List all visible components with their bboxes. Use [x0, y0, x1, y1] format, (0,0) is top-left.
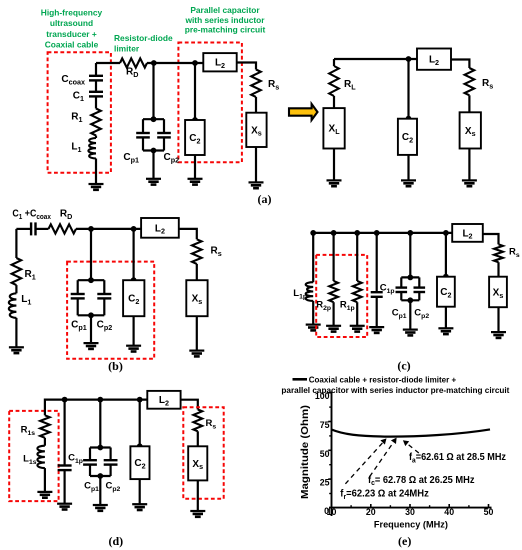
svg-text:100: 100 [315, 391, 330, 401]
wire R1-L1 (b) [15, 285, 17, 293]
inductor L2 box (b) [141, 218, 179, 238]
yellow arrow (a) [289, 104, 318, 120]
svg-text:Parallel capacitorwith series: Parallel capacitorwith series inductorpr… [184, 5, 265, 35]
junction R2p (c) [331, 230, 337, 236]
wire C2-ground (c) [445, 307, 447, 329]
ground Xs (b) [189, 351, 204, 357]
capacitor C1 (a) [89, 92, 103, 97]
inductor L2 box (a right) [417, 49, 451, 70]
legend line sample (e) [293, 378, 308, 381]
reactance Xs box (a) [246, 113, 266, 147]
ground Cp branch (a) [146, 179, 161, 185]
svg-text:(c): (c) [397, 359, 410, 373]
inductor L1s (d) [37, 446, 45, 468]
wire to Cp pair (d) [99, 400, 101, 448]
wire L2 to Rs (a right) [451, 60, 469, 69]
dashed arrow fc (e) [370, 440, 396, 477]
wire top left (a) [96, 62, 120, 64]
wire to Cp pair (b) [90, 229, 92, 280]
wire L1p-ground (c) [312, 301, 314, 325]
node top of C2 (a) [192, 117, 198, 123]
wire C1p-ground (d) [63, 470, 65, 504]
wire top (d) [45, 400, 147, 410]
wire C1p-ground (c) [376, 297, 378, 328]
wire C1-R1 (a) [95, 96, 97, 108]
svg-text:(a): (a) [258, 192, 272, 206]
red dashed box: pre-matching circuit (a) [178, 43, 242, 163]
wire Rs-Xs (a) [255, 97, 257, 113]
capacitor C1+Ccoax (b) [31, 222, 35, 235]
wire to C1p (c) [376, 233, 378, 292]
wire L2-Rs (b) [179, 229, 197, 239]
red dashed box Cp1 Cp2 C2 (b) [67, 262, 154, 359]
resistor R2p (c) [329, 281, 338, 302]
wire to R2p (c) [333, 233, 335, 281]
wire to C2 (c) [445, 233, 447, 277]
wire L2-Rs (d) [181, 400, 198, 410]
junction C1p (c) [374, 230, 380, 236]
ground Cp (d) [93, 505, 108, 511]
y axis (e) [331, 392, 333, 517]
svg-text:Magnitude (Ohm): Magnitude (Ohm) [300, 405, 311, 499]
arrowhead fr (e) [380, 438, 386, 444]
capacitor C2 box (c) [437, 277, 455, 307]
ground Xs (c) [491, 332, 506, 338]
wire L2 to Rs (a) [237, 63, 256, 70]
resistor R1s (d) [40, 415, 50, 438]
capacitor C2 box (a right) [398, 119, 417, 155]
svg-text:fr=62.23 Ω at 24MHz: fr=62.23 Ω at 24MHz [340, 489, 429, 501]
wire Cp-ground (b) [90, 315, 92, 343]
resistor RL (a right) [329, 66, 339, 96]
junction C2 (c) [443, 230, 449, 236]
wire Cp-ground (a) [152, 151, 154, 179]
wire RL-XL (a right) [333, 96, 335, 108]
junction node C2 (a right) [406, 56, 412, 62]
wire to C2 (b) [133, 229, 135, 280]
impedance magnitude curve (e) [332, 429, 491, 436]
junction left end (c) [310, 230, 316, 236]
x axis tick labels (e) [327, 507, 494, 517]
arrowhead fc (e) [391, 438, 397, 444]
y axis tick labels (e) [315, 391, 330, 516]
wire R2p-ground (c) [333, 302, 335, 326]
resistor R1 (b) [12, 258, 22, 285]
resistor Rs (a right) [465, 68, 475, 95]
junction Cp (b) [88, 226, 94, 232]
wire L1-ground (b) [15, 318, 17, 347]
svg-text:(e): (e) [398, 534, 411, 548]
svg-text:fc= 62.78 Ω at 26.25 MHz: fc= 62.78 Ω at 26.25 MHz [368, 475, 475, 487]
wire Rs-Xs (a right) [468, 95, 470, 112]
wire Xs-ground (b) [196, 316, 198, 350]
svg-text:(d): (d) [108, 534, 123, 548]
junction C1p (d) [62, 397, 68, 403]
reactance XL box (a right) [323, 108, 344, 148]
capacitors Cp1 Cp2 parallel pair (a) [136, 116, 171, 153]
red dashed box Rs Xs (d) [183, 407, 223, 498]
node top C2 (b) [131, 277, 137, 283]
capacitors Cp1 Cp2 parallel pair (d) [83, 445, 117, 479]
capacitors Cp1 Cp2 parallel pair (b) [71, 277, 112, 318]
ground Xs branch (a) [249, 182, 264, 188]
wire Ccoax-C1 (a) [95, 80, 97, 91]
inductor L2 box (d) [147, 391, 180, 409]
wire Xs-ground (a right) [468, 149, 470, 181]
red dashed box R1s L1s (d) [9, 411, 58, 501]
wire C2-ground (b) [133, 316, 135, 346]
wire Cp-ground (c) [409, 300, 411, 329]
wire top (a right) [334, 58, 417, 60]
ground Xs (d) [190, 511, 205, 517]
wire to Ccoax (a) [95, 63, 97, 76]
red dashed box: transducer + coaxial cable (a) [48, 52, 111, 172]
wire R1p-ground (c) [356, 302, 358, 326]
wire to R1 (b) [15, 229, 17, 258]
ground Cp (b) [84, 343, 99, 349]
junction C2 (b) [131, 226, 137, 232]
wire Xs-ground (c) [497, 307, 499, 332]
node top of C2 (a right) [406, 116, 412, 122]
capacitor C1p (c) [371, 292, 383, 297]
capacitor Ccoax (a) [89, 76, 103, 81]
inductor L2 box (a) [203, 53, 236, 71]
svg-text:(b): (b) [108, 359, 123, 373]
ground R1s L1s (d) [37, 492, 52, 498]
ground C2 (b) [126, 346, 141, 352]
wire C2-ground (a) [194, 155, 196, 179]
ground L1p (c) [306, 325, 321, 331]
capacitor C1p (d) [58, 466, 72, 471]
wire Rs-Xs (d) [197, 431, 199, 446]
wire to C2 (d) [139, 400, 141, 447]
reactance Xs box (d) [188, 446, 207, 480]
x axis (e) [329, 507, 492, 509]
inductor L1 (a) [88, 138, 96, 159]
svg-text:10: 10 [327, 507, 337, 517]
ground XL (a right) [327, 180, 342, 186]
resistor R1p (c) [353, 281, 362, 302]
node top C2 (d) [137, 443, 143, 449]
wire to C2 (a right) [407, 59, 409, 119]
reactance Xs box (a right) [460, 112, 481, 148]
junction node C2 (a) [192, 60, 198, 66]
arrowhead fa (e) [403, 440, 409, 446]
svg-text:Frequency (MHz): Frequency (MHz) [374, 519, 448, 530]
wire C2-ground (d) [139, 479, 141, 504]
resistor Rs (a) [251, 70, 261, 98]
wire to C2 (a) [194, 63, 196, 120]
red dashed box R2p R1p (c) [316, 255, 367, 337]
ground R1p (c) [350, 326, 365, 332]
capacitor C2 box (b) [123, 280, 144, 316]
junction node RD-Cp (a) [151, 60, 157, 66]
wire Cp-ground (d) [99, 476, 101, 505]
wire XL-ground (a right) [333, 149, 335, 181]
wire to RL (a right) [333, 59, 335, 66]
junction Cp (d) [97, 397, 103, 403]
wire R1s-L1s (d) [44, 438, 46, 446]
wire C2-ground (a right) [407, 155, 409, 181]
ground Cp (c) [403, 330, 418, 336]
reactance Xs box (b) [186, 280, 207, 316]
ground C1p (d) [57, 504, 72, 510]
ground Xs (a right) [462, 180, 477, 186]
node top C2 (c) [443, 274, 449, 280]
wire to L1p (c) [312, 233, 314, 282]
wire L2-Rs (c) [483, 234, 499, 244]
y axis ticks (e) [328, 393, 331, 494]
wire corner-R1s (d) [44, 410, 46, 415]
capacitor C2 box (a) [185, 120, 205, 155]
resistor Rs (b) [192, 239, 202, 264]
wire RD-L2 (b) [76, 228, 141, 230]
dashed arrow fa (e) [405, 442, 419, 453]
wire Xs-ground (d) [197, 480, 199, 511]
svg-text:50: 50 [320, 449, 330, 459]
ground C2 (a right) [401, 180, 416, 186]
resistor Rs (d) [193, 410, 202, 432]
wire top mid (a) [147, 62, 203, 64]
x axis ticks (e) [351, 504, 488, 508]
ground C2 branch (a) [188, 179, 203, 185]
wire top leftmost (b) [16, 228, 31, 230]
inductor L2 box (c) [452, 224, 483, 242]
inductor L1 (b) [9, 293, 17, 318]
reactance Xs box (c) [489, 277, 507, 308]
wire L1s-ground (d) [44, 468, 46, 492]
junction C2 (d) [137, 397, 143, 403]
wire to Cp pair (c) [409, 233, 411, 278]
svg-text:50: 50 [484, 507, 494, 517]
svg-text:Coaxial cable + resistor-diode: Coaxial cable + resistor-diode limiter + [309, 375, 457, 384]
svg-text:25: 25 [320, 478, 330, 488]
svg-text:20: 20 [366, 507, 376, 517]
inductor L1p (c) [306, 282, 314, 301]
resistor Rs (c) [494, 244, 503, 262]
svg-text:30: 30 [405, 507, 415, 517]
ground left branch (a) [89, 184, 104, 190]
resistor R1 (a) [91, 109, 101, 136]
junction Cp (c) [407, 230, 413, 236]
wire L1-ground (a) [95, 159, 97, 185]
wire cap-RD (b) [36, 228, 49, 230]
wire to Cp pair (a) [152, 63, 154, 119]
ground C2 (d) [132, 504, 147, 510]
resistor RD (b) [49, 224, 77, 233]
ground R2p (c) [326, 326, 341, 332]
wire R1-L1 (a) [95, 136, 97, 139]
svg-text:40: 40 [444, 507, 454, 517]
dashed arrow fr (e) [345, 440, 384, 483]
capacitors Cp1 Cp2 parallel pair (c) [396, 275, 426, 304]
junction R1p (c) [354, 230, 360, 236]
wire Xs-ground (a) [255, 147, 257, 182]
ground C1p (c) [369, 327, 384, 333]
wire top (c) [313, 232, 452, 234]
svg-text:fa=62.61 Ω at 28.5 MHz: fa=62.61 Ω at 28.5 MHz [409, 452, 506, 464]
ground C2 (c) [438, 328, 453, 334]
ground left (b) [9, 347, 24, 353]
wire to C1p (d) [63, 400, 65, 466]
svg-text:High-frequencyultrasoundtransd: High-frequencyultrasoundtransducer +Coax… [41, 8, 103, 50]
resistor RD (a) [120, 58, 147, 67]
svg-text:75: 75 [320, 420, 330, 430]
wire Rs-Xs (b) [196, 264, 198, 280]
capacitor C2 box (d) [130, 446, 149, 479]
wire to R1p (c) [356, 233, 358, 281]
wire Rs-Xs (c) [497, 262, 499, 277]
